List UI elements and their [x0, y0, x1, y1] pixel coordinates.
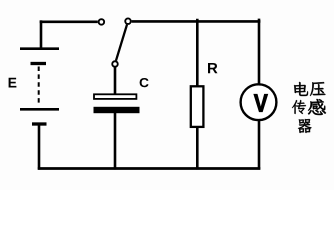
battery E plate long bottom: [20, 108, 59, 111]
wire top rail: [132, 20, 261, 23]
wire bottom rail: [38, 167, 260, 170]
wire resistor top stub: [196, 19, 199, 87]
wire capacitor top stub: [114, 68, 117, 95]
wire resistor bottom stub: [196, 127, 199, 170]
battery E dashed cell continuation: [38, 67, 40, 104]
capacitor C plate bottom (solid): [94, 107, 140, 113]
voltmeter U1 body circle: [241, 84, 277, 120]
wire top-left horizontal to switch: [40, 20, 98, 23]
wire capacitor bottom stub: [114, 112, 117, 170]
label C: [140, 78, 149, 87]
voltmeter V symbol: [254, 94, 268, 111]
label chuan (传): [292, 100, 306, 114]
switch terminal left (node a): [99, 19, 105, 25]
switch terminal right (node b): [125, 18, 131, 24]
wire voltmeter bottom stub: [258, 120, 261, 169]
switch pole terminal bottom: [112, 61, 118, 67]
battery E plate long top: [20, 47, 59, 50]
resistor R body: [191, 86, 204, 127]
label dian (电): [294, 82, 308, 96]
label ya (压): [310, 82, 326, 96]
label gan (感): [308, 99, 326, 115]
label R: [208, 63, 218, 73]
battery E plate short bottom: [32, 122, 47, 125]
label E: [9, 78, 17, 88]
capacitor C plate top (outlined): [94, 94, 136, 99]
battery E plate short top: [31, 62, 47, 65]
wire battery bottom vertical: [38, 125, 41, 170]
wire voltmeter top stub: [258, 19, 261, 85]
switch S lever: [116, 25, 127, 61]
label qi (器): [298, 119, 312, 133]
wire battery top vertical: [40, 20, 43, 48]
